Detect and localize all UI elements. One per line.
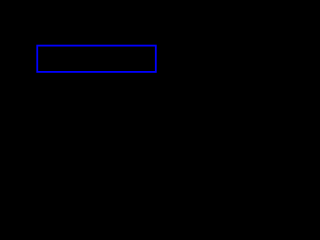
box	[37, 46, 156, 72]
